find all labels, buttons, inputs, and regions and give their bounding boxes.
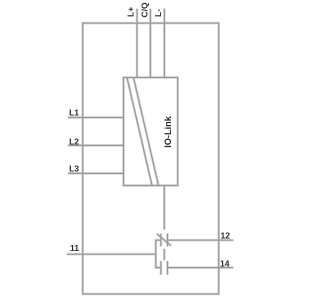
svg-text:L+: L+ (125, 7, 135, 17)
svg-text:14: 14 (220, 258, 230, 268)
svg-text:C/Q: C/Q (139, 2, 149, 18)
svg-text:L3: L3 (69, 163, 79, 173)
svg-text:11: 11 (70, 243, 79, 253)
svg-text:12: 12 (221, 230, 231, 240)
svg-text:L1: L1 (69, 108, 79, 118)
svg-text:L2: L2 (69, 137, 79, 147)
svg-text:L-: L- (153, 9, 163, 17)
svg-text:IO-Link: IO-Link (163, 115, 173, 148)
